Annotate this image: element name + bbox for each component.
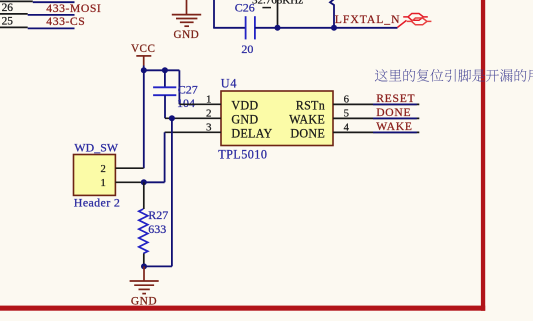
resistor R27 lead top <box>143 182 145 209</box>
resistor R27 <box>139 209 148 254</box>
svg-text:3: 3 <box>206 122 212 134</box>
svg-text:2: 2 <box>206 108 212 120</box>
wire from crystal bend <box>330 0 334 28</box>
svg-text:RESET: RESET <box>376 92 415 105</box>
svg-text:1: 1 <box>206 94 212 106</box>
svg-text:DONE: DONE <box>290 127 325 141</box>
svg-text:LFXTAL_N: LFXTAL_N <box>335 13 401 26</box>
pin 4 line <box>333 131 419 133</box>
capacitor C27 <box>153 87 176 95</box>
svg-text:26: 26 <box>2 2 14 14</box>
junction <box>275 25 281 31</box>
svg-text:4: 4 <box>344 122 350 134</box>
pin 2 line <box>165 117 221 119</box>
svg-text:2: 2 <box>101 164 106 175</box>
svg-text:GND: GND <box>231 113 258 127</box>
ground symbol (bottom) <box>130 266 159 293</box>
sheet border right <box>481 0 485 311</box>
pin 3 line <box>165 131 221 133</box>
svg-text:TPL5010: TPL5010 <box>218 148 267 162</box>
svg-text:20: 20 <box>241 42 253 56</box>
sheet border bottom <box>0 306 485 311</box>
svg-text:RSTn: RSTn <box>296 99 325 113</box>
wire net 433-MOSI <box>28 14 75 16</box>
pin 6 line <box>333 103 419 105</box>
svg-text:6: 6 <box>344 94 350 106</box>
pin 25 line <box>0 26 28 28</box>
svg-text:1: 1 <box>101 178 106 189</box>
junction <box>331 25 337 31</box>
svg-text:GND: GND <box>174 29 200 41</box>
svg-text:104: 104 <box>177 96 195 110</box>
svg-text:433-CS: 433-CS <box>46 15 85 28</box>
wire DONE <box>373 117 417 119</box>
power port VCC <box>136 56 151 66</box>
wire RESET <box>373 103 417 105</box>
wire DELAY to R27 <box>144 181 165 183</box>
svg-text:DELAY: DELAY <box>231 127 272 141</box>
pin 26 line <box>0 13 28 15</box>
junction U4 GND <box>169 115 175 121</box>
resistor R27 lead bottom <box>143 254 145 267</box>
net flag LFXTAL_N <box>398 14 432 28</box>
junction node pin1/R27 <box>141 179 147 185</box>
wire DELAY down <box>164 132 166 182</box>
wire VCC rail <box>144 69 180 71</box>
pin 27 stub (top row) <box>0 0 75 3</box>
wire U4 GND to ground <box>144 265 172 267</box>
svg-text:VDD: VDD <box>231 99 258 113</box>
wire C27 top stem <box>164 70 166 87</box>
wire LFXTAL_N net <box>255 27 398 29</box>
capacitor C26 <box>246 16 255 39</box>
svg-text:GND: GND <box>131 295 157 307</box>
ground symbol (top, crystal) <box>172 0 201 26</box>
junction ground node <box>141 263 147 269</box>
pin 1 line <box>179 103 221 105</box>
connector WD_SW header <box>74 155 116 196</box>
wire net 433-CS <box>28 27 75 29</box>
wire crystal left leg <box>213 0 215 28</box>
wire U4 GND down <box>171 118 173 266</box>
svg-text:25: 25 <box>2 15 14 27</box>
svg-text:VCC: VCC <box>131 43 156 55</box>
wire VCC stem <box>143 66 145 71</box>
note text (chinese) <box>375 69 533 82</box>
header pin 2 line <box>115 167 143 169</box>
svg-text:R27: R27 <box>148 208 168 222</box>
wire VCC to VDD <box>178 70 180 104</box>
svg-text:433-MOSI: 433-MOSI <box>46 2 101 15</box>
svg-text:5: 5 <box>344 108 349 120</box>
svg-text:DONE: DONE <box>376 106 411 119</box>
svg-text:633: 633 <box>148 222 166 236</box>
IC U4 TPL5010 <box>221 91 333 146</box>
svg-text:C27: C27 <box>178 83 198 97</box>
svg-text:C26: C26 <box>235 1 255 15</box>
crystal body edge (partial) <box>262 7 271 9</box>
wire VCC down to header pin 2 <box>143 70 145 168</box>
header pin 1 line <box>115 181 143 183</box>
svg-text:WD_SW: WD_SW <box>74 141 119 155</box>
wire C27 bottom stem <box>164 95 166 118</box>
junction <box>141 67 147 73</box>
pin 5 line <box>333 117 419 119</box>
svg-text:Header 2: Header 2 <box>74 196 120 210</box>
wire WAKE <box>373 131 417 133</box>
svg-text:U4: U4 <box>221 77 238 91</box>
junction <box>162 67 168 73</box>
wire to C26 <box>213 27 245 29</box>
svg-text:WAKE: WAKE <box>376 120 412 133</box>
svg-text:WAKE: WAKE <box>289 113 325 127</box>
crystal right pin <box>277 0 279 28</box>
